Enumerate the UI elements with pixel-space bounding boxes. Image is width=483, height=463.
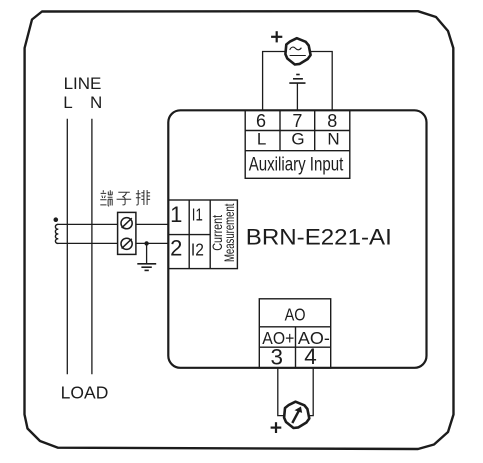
svg-text:2: 2 <box>170 236 182 261</box>
terminal screw 2 <box>121 238 132 249</box>
svg-text:N: N <box>327 130 339 149</box>
current transformer coil T1 <box>55 224 58 243</box>
device box U1 <box>168 110 426 368</box>
svg-text:I2: I2 <box>191 239 204 259</box>
ground (auxiliary, inverted) <box>289 75 305 111</box>
label + (meter polarity) <box>271 422 282 433</box>
analog output table <box>259 299 330 368</box>
svg-text:N: N <box>90 93 102 112</box>
auxiliary input table <box>245 110 350 178</box>
wire N line <box>91 119 93 374</box>
label + (AC source polarity) <box>271 31 282 42</box>
svg-text:G: G <box>291 130 304 149</box>
svg-text:AO: AO <box>285 305 306 325</box>
wire L line <box>66 119 68 374</box>
terminal block body <box>118 212 136 254</box>
label 端子排 (terminal strip) <box>100 190 150 206</box>
wire pin3 to meter <box>278 368 284 416</box>
svg-text:6: 6 <box>256 111 266 131</box>
wire junction to ground <box>146 243 148 263</box>
svg-text:LOAD: LOAD <box>61 383 109 403</box>
terminal screw 1 <box>121 218 132 229</box>
wire block to terminal 1 <box>136 223 169 225</box>
terminal table current inputs <box>168 200 237 269</box>
svg-text:3: 3 <box>271 345 284 370</box>
svg-text:Auxiliary Input: Auxiliary Input <box>249 155 344 176</box>
label Current Measurement <box>209 203 237 262</box>
svg-text:L: L <box>257 130 266 149</box>
svg-text:Measurement: Measurement <box>221 203 237 262</box>
svg-text:BRN-E221-AI: BRN-E221-AI <box>246 225 392 250</box>
svg-text:8: 8 <box>327 111 337 131</box>
svg-text:I1: I1 <box>192 204 203 224</box>
AC source V1 <box>285 38 310 64</box>
svg-text:7: 7 <box>292 111 302 131</box>
svg-text:L: L <box>63 93 72 112</box>
CT polarity dot <box>54 217 59 222</box>
wire pin4 to meter <box>309 368 313 416</box>
meter M1 <box>284 402 309 428</box>
wire block to terminal 2 <box>136 242 169 244</box>
svg-text:LINE: LINE <box>64 74 102 93</box>
junction dot <box>144 241 148 245</box>
wire CT top to terminal block <box>58 223 118 225</box>
wire pin8 to AC source <box>311 52 332 111</box>
wire pin6 to AC source <box>263 52 285 111</box>
svg-text:4: 4 <box>304 344 317 369</box>
ground (earth) <box>137 264 156 271</box>
wire CT bottom to terminal block <box>58 242 118 244</box>
svg-text:1: 1 <box>170 202 182 227</box>
